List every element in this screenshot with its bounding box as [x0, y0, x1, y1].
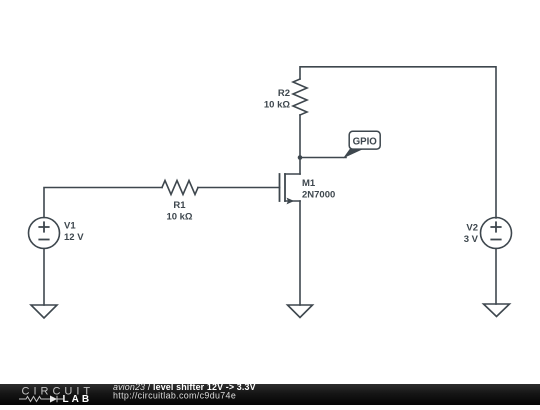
svg-text:2N7000: 2N7000 — [302, 189, 335, 200]
voltage source V2 circle — [481, 218, 512, 249]
wire V2 bottom to ground — [495, 249, 497, 305]
logo diode triangle — [50, 396, 57, 403]
svg-text:GPIO: GPIO — [353, 137, 378, 148]
V2 plus sign — [491, 222, 500, 231]
V1 minus sign — [39, 239, 48, 241]
V2 minus sign — [491, 239, 500, 241]
transistor M1 source lead — [285, 200, 300, 202]
svg-text:R1: R1 — [173, 200, 186, 211]
transistor M1 gate bar — [279, 174, 281, 201]
svg-text:3 V: 3 V — [464, 234, 479, 245]
svg-text:V1: V1 — [64, 220, 76, 231]
V1 plus sign — [39, 222, 48, 231]
svg-text:LAB: LAB — [63, 394, 93, 405]
svg-text:12 V: 12 V — [64, 232, 84, 243]
GPIO flag tail — [343, 149, 363, 159]
transistor M1 channel bar — [284, 174, 286, 201]
GPIO flag box — [349, 131, 380, 149]
ground for M1 source — [288, 305, 313, 318]
transistor M1 drain lead — [285, 173, 300, 175]
wire R1 right to gate — [198, 187, 280, 189]
wire gate net: V1 top to M1 gate — [44, 188, 162, 218]
svg-text:http://circuitlab.com/c9du74e: http://circuitlab.com/c9du74e — [113, 390, 236, 400]
transistor M1 source arrow — [287, 198, 295, 205]
wire top rail from R2 top to V2 top — [300, 67, 496, 218]
node drain junction dot — [298, 155, 303, 160]
resistor R1 — [162, 181, 198, 195]
svg-text:10 kΩ: 10 kΩ — [166, 211, 192, 222]
logo mini schematic wire+resistor+diode — [19, 396, 63, 403]
resistor R2 — [293, 79, 307, 115]
wire node to GPIO flag — [300, 157, 346, 159]
voltage source V1 circle — [29, 218, 60, 249]
svg-text:10 kΩ: 10 kΩ — [264, 99, 290, 110]
ground for V1 — [31, 305, 57, 318]
svg-text:V2: V2 — [466, 223, 478, 234]
ground for V2 — [484, 304, 510, 317]
wire R2 bottom to drain node — [299, 115, 301, 174]
svg-text:R2: R2 — [278, 88, 290, 99]
wire V1 bottom to ground — [43, 249, 45, 306]
wire source to ground — [299, 201, 301, 305]
svg-text:M1: M1 — [302, 178, 316, 189]
footer bar — [0, 384, 540, 405]
